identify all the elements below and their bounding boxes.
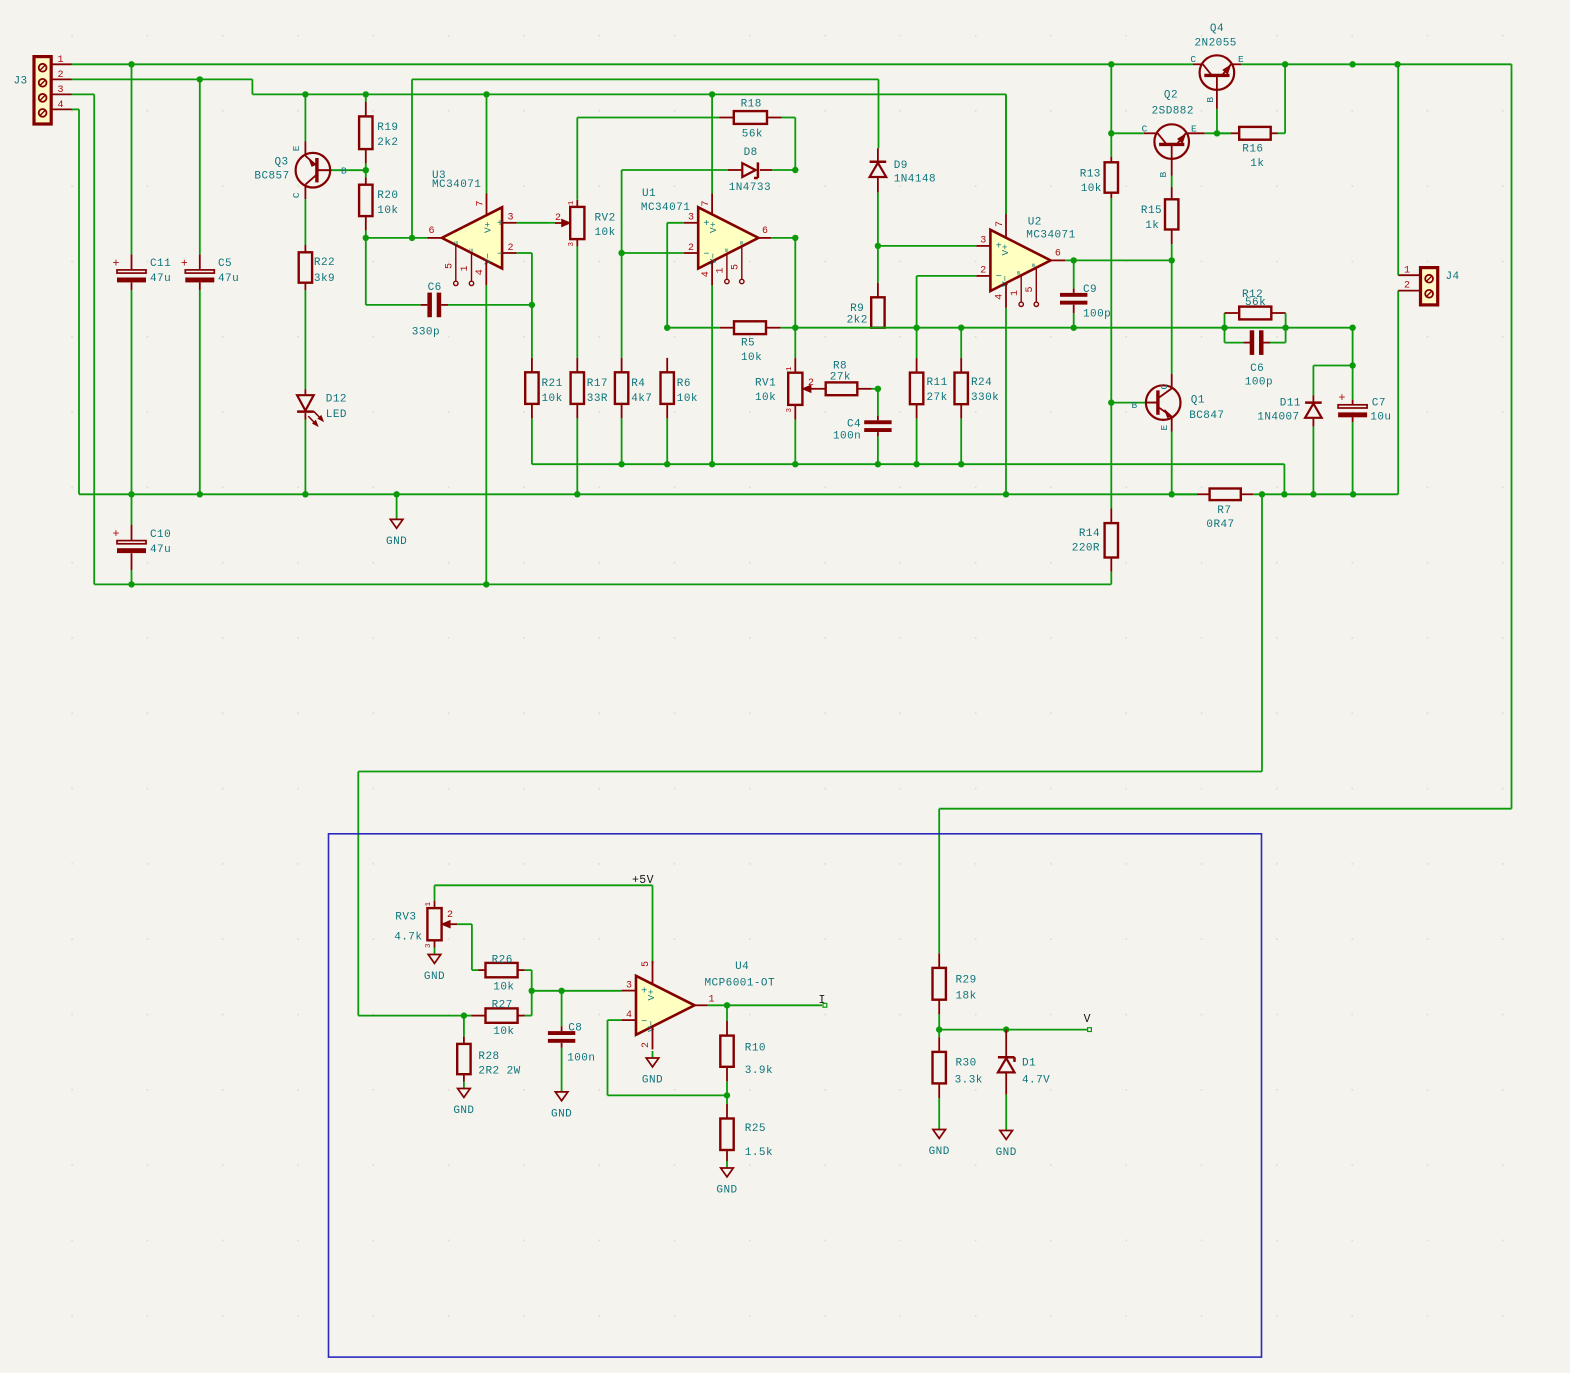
svg-text:MC34071: MC34071	[641, 202, 690, 214]
op-amp U1	[641, 188, 759, 268]
capacitor C10	[113, 528, 172, 556]
wire Q4 base	[1216, 90, 1218, 133]
junction R8 C4 R9col	[875, 386, 881, 392]
resistor R11	[910, 328, 948, 465]
svg-text:R15: R15	[1141, 205, 1162, 217]
junction Q3 base R19 R20	[363, 167, 369, 173]
pin 2 U1	[622, 243, 699, 254]
svg-text:RV2: RV2	[595, 212, 616, 224]
wire R9 bottom	[877, 327, 879, 329]
pin 6 U2	[1052, 248, 1073, 260]
svg-text:3: 3	[688, 213, 694, 224]
pin 5 U2 NC	[1025, 268, 1039, 307]
junction R10 R25 row	[724, 1092, 730, 1098]
svg-text:1k: 1k	[1250, 158, 1264, 170]
wire R21 column	[531, 305, 533, 372]
capacitor C5	[181, 257, 239, 285]
junction sense R24	[958, 461, 964, 467]
capacitor C11	[113, 257, 172, 285]
svg-text:GND: GND	[453, 1105, 474, 1117]
wire U1 out to RV1	[794, 238, 796, 373]
pin 1 U2 NC	[1010, 275, 1024, 306]
junction D11 C7 column	[1349, 362, 1355, 368]
svg-text:B: B	[341, 166, 347, 177]
svg-text:GND: GND	[996, 1147, 1017, 1159]
net label V	[1084, 1013, 1092, 1032]
ground symbol GND C8	[551, 1085, 572, 1121]
svg-text:56k: 56k	[1245, 297, 1266, 309]
svg-text:10k: 10k	[1081, 183, 1102, 195]
junction R27 R28	[461, 1012, 467, 1018]
svg-text:R13: R13	[1080, 169, 1101, 181]
svg-text:V: V	[1084, 1013, 1091, 1026]
junction GND C7	[1350, 491, 1356, 497]
svg-text:1k: 1k	[1145, 220, 1159, 232]
wire Q4 emitter stub	[1232, 63, 1241, 65]
wire Q2 collector	[1111, 132, 1156, 134]
op-amp U4	[636, 961, 775, 1035]
svg-text:R28: R28	[478, 1051, 499, 1063]
svg-text:V+: V+	[483, 221, 494, 233]
resistor R20	[359, 170, 398, 238]
resistor R25	[720, 1095, 773, 1161]
svg-text:R7: R7	[1217, 505, 1231, 517]
junction pin2 C5	[197, 76, 203, 82]
svg-text:V−: V−	[483, 253, 494, 265]
svg-text:2: 2	[555, 213, 561, 224]
diode D9	[870, 148, 936, 192]
wire net GND main row	[79, 291, 1398, 495]
svg-text:10k: 10k	[542, 393, 563, 405]
pin B label Q1	[1132, 400, 1138, 411]
junction +BATT C7 column	[1349, 61, 1355, 67]
svg-text:R21: R21	[542, 378, 563, 390]
svg-text:R10: R10	[745, 1043, 766, 1055]
svg-text:10k: 10k	[493, 982, 514, 994]
svg-text:3: 3	[568, 242, 576, 247]
svg-text:2k2: 2k2	[847, 314, 868, 326]
pin 1 U4	[695, 995, 823, 1006]
svg-text:C: C	[291, 192, 302, 198]
svg-text:I: I	[819, 994, 826, 1007]
svg-text:V−: V−	[646, 1020, 657, 1032]
svg-text:5: 5	[445, 263, 456, 269]
junction mid R11	[913, 325, 919, 331]
net label I	[819, 994, 827, 1007]
diode D11	[1257, 398, 1321, 495]
svg-text:0R47: 0R47	[1206, 519, 1234, 531]
junction V D1	[1003, 1026, 1009, 1032]
resistor R30	[933, 1030, 983, 1123]
junction sense U1 pin4	[709, 461, 715, 467]
wire R18 row	[577, 118, 795, 171]
svg-text:1: 1	[716, 267, 727, 273]
junction GND R7 right	[1259, 491, 1265, 497]
svg-text:RV1: RV1	[755, 377, 776, 389]
transistor Q1	[1146, 385, 1225, 422]
svg-text:3.3k: 3.3k	[955, 1075, 983, 1087]
resistor R9	[847, 297, 885, 327]
svg-text:2: 2	[688, 243, 694, 254]
svg-text:R14: R14	[1079, 528, 1100, 540]
pin 6 U1	[758, 226, 795, 238]
pin 4 label J3	[57, 100, 63, 111]
capacitor C9	[1060, 260, 1111, 327]
wire net FB2 y79 line to D9	[412, 79, 879, 148]
svg-text:1: 1	[460, 265, 471, 271]
svg-text:≡: ≡	[469, 248, 477, 252]
svg-text:100n: 100n	[833, 431, 861, 443]
resistor R15	[1141, 199, 1179, 260]
svg-text:R11: R11	[927, 377, 948, 389]
svg-text:RV3: RV3	[395, 912, 416, 924]
junction +BATT J4 pin1 column	[1394, 61, 1400, 67]
pin 7 U1	[701, 94, 712, 215]
junction U3 out fb column	[409, 235, 415, 241]
svg-text:J4: J4	[1446, 271, 1460, 283]
svg-text:1: 1	[425, 901, 433, 906]
wire Q1 collector	[1171, 260, 1173, 387]
svg-text:3.9k: 3.9k	[745, 1065, 773, 1077]
junction GND U2 pin4	[1003, 491, 1009, 497]
net label +5V	[632, 874, 654, 887]
wire RV2 pin3 to R17	[576, 239, 578, 372]
wire Q1 base row	[1111, 402, 1157, 404]
junction +BATT C11	[128, 61, 134, 67]
svg-text:+: +	[113, 528, 120, 541]
pin 2 U2	[917, 266, 991, 328]
svg-text:D8: D8	[744, 147, 758, 159]
resistor R26	[486, 955, 532, 994]
resistor R19	[359, 94, 398, 170]
pin 4 U1	[701, 260, 712, 464]
svg-text:47u: 47u	[218, 273, 239, 285]
wire RV2 pin1 to R18 row	[576, 118, 578, 207]
resistor R18	[734, 99, 767, 141]
junction C8 top	[558, 988, 564, 994]
junction U1 out column	[792, 235, 798, 241]
wire D11 branch	[1313, 366, 1352, 403]
wire R9 column	[877, 192, 879, 297]
junction +V Q3 emitter	[302, 91, 308, 97]
wire RV3 pin3 to GND	[434, 940, 436, 947]
svg-text:D1: D1	[1022, 1058, 1036, 1070]
resistor R5	[734, 321, 766, 364]
pin B label Q3	[341, 166, 347, 177]
svg-text:MC34071: MC34071	[1026, 229, 1075, 241]
svg-text:R16: R16	[1242, 143, 1263, 155]
svg-text:Q1: Q1	[1191, 395, 1205, 407]
junction +V R19	[363, 91, 369, 97]
ground symbol GND D1	[996, 1124, 1017, 1160]
svg-text:+: +	[1339, 392, 1346, 405]
svg-text:3: 3	[507, 213, 513, 224]
svg-text:7: 7	[995, 221, 1006, 227]
junction fb C6 U3pin2	[529, 302, 535, 308]
svg-text:C6: C6	[1250, 363, 1264, 375]
junction GND D11	[1310, 491, 1316, 497]
svg-text:5: 5	[1025, 286, 1036, 292]
svg-text:R18: R18	[741, 99, 762, 111]
svg-text:+: +	[181, 257, 188, 270]
svg-text:1: 1	[786, 366, 794, 371]
svg-text:4.7k: 4.7k	[394, 932, 422, 944]
svg-text:E: E	[291, 145, 302, 151]
pin C label Q3	[291, 192, 302, 198]
svg-text:B: B	[1132, 400, 1138, 411]
resistor R4	[615, 358, 652, 464]
wire C7 column	[1352, 328, 1354, 495]
potentiometer RV3	[394, 901, 457, 948]
wire Q1 emitter	[1171, 418, 1173, 495]
capacitor C7	[1338, 392, 1391, 424]
pin 7 U3	[476, 94, 487, 215]
potentiometer RV2	[549, 200, 616, 246]
svg-text:3k9: 3k9	[314, 273, 335, 285]
junction Q2 emitter Q4 base	[1214, 130, 1220, 136]
svg-text:6: 6	[1055, 248, 1061, 259]
svg-text:E: E	[1159, 425, 1170, 431]
junction GND Q1 emitter	[1169, 491, 1175, 497]
svg-text:+: +	[113, 257, 120, 270]
junction R26 R27 pin3 row	[529, 988, 535, 994]
svg-text:R26: R26	[492, 955, 513, 967]
svg-text:C6: C6	[428, 282, 442, 294]
svg-text:3: 3	[786, 408, 794, 413]
wire J4 pin2 stub	[1398, 290, 1420, 292]
svg-text:R5: R5	[741, 337, 755, 349]
svg-text:B: B	[1205, 97, 1216, 103]
wire R5 row	[667, 327, 795, 329]
transistor Q4	[1195, 23, 1237, 90]
svg-text:1: 1	[1010, 290, 1021, 296]
svg-text:B: B	[1158, 172, 1169, 178]
junction Q2 collector R13	[1108, 130, 1114, 136]
svg-text:47u: 47u	[150, 273, 171, 285]
pin E label Q1	[1159, 425, 1170, 431]
wire net GND pin4 feed	[72, 109, 79, 494]
ground symbol GND R28	[453, 1082, 474, 1118]
op-amp U2	[990, 216, 1075, 291]
svg-text:6: 6	[428, 226, 434, 237]
svg-text:2R2 2W: 2R2 2W	[478, 1066, 520, 1078]
svg-text:1.5k: 1.5k	[745, 1147, 773, 1159]
junction R5 right RV1	[792, 325, 798, 331]
svg-text:10k: 10k	[595, 227, 616, 239]
wire RV3 wiper to R26	[457, 924, 485, 970]
svg-text:1: 1	[568, 200, 576, 205]
wire C5 column	[199, 79, 201, 494]
pin 4 U4	[608, 1010, 728, 1096]
svg-text:5: 5	[641, 961, 652, 967]
junction mid C9	[1071, 325, 1077, 331]
svg-text:220R: 220R	[1072, 543, 1100, 555]
svg-text:Q3: Q3	[275, 157, 289, 169]
svg-text:BC857: BC857	[254, 171, 289, 183]
sheet box lower	[329, 834, 1262, 1357]
svg-text:U1: U1	[642, 188, 656, 200]
wire net pin3 to V- row	[72, 94, 1111, 584]
junction GND D12	[302, 491, 308, 497]
wire C11 column	[131, 64, 133, 494]
wire D12 to GND row	[304, 413, 306, 494]
wire V row	[939, 1029, 1088, 1031]
svg-text:3: 3	[626, 980, 632, 991]
svg-text:R29: R29	[956, 975, 977, 987]
junction GND R17	[574, 491, 580, 497]
junction GND C11-C10	[128, 491, 134, 497]
svg-text:R25: R25	[745, 1123, 766, 1135]
svg-text:R19: R19	[377, 122, 398, 134]
svg-text:18k: 18k	[956, 991, 977, 1003]
junction U1 pin2 column	[618, 250, 624, 256]
junction GND symbol	[393, 491, 399, 497]
pin 5 U1 NC	[731, 245, 745, 283]
svg-text:10k: 10k	[741, 352, 762, 364]
wire J4 pin1	[1398, 64, 1420, 275]
wire net +BATT top rail	[72, 64, 1512, 953]
svg-text:4.7V: 4.7V	[1022, 1075, 1050, 1087]
ground symbol GND R30	[929, 1123, 950, 1159]
svg-text:R17: R17	[587, 378, 608, 390]
pin 3 U4	[622, 980, 636, 991]
svg-text:7: 7	[476, 200, 487, 206]
junction U3 out R20	[363, 235, 369, 241]
svg-text:GND: GND	[386, 536, 407, 548]
wire R27 row	[464, 1015, 486, 1017]
pin 4 U2	[995, 283, 1006, 495]
svg-text:R22: R22	[314, 257, 335, 269]
pin 1 U1 NC	[716, 253, 730, 284]
junction mid R24	[958, 325, 964, 331]
wire net VIN- pin2 to +rail jog	[72, 79, 253, 94]
svg-text:GND: GND	[929, 1146, 950, 1158]
pin 3 U3	[502, 213, 548, 224]
svg-text:2: 2	[447, 910, 453, 921]
capacitor C6 330p	[412, 282, 442, 339]
pin E label Q3	[291, 145, 302, 151]
svg-text:≡: ≡	[724, 248, 732, 252]
connector J4	[1421, 268, 1460, 305]
ground symbol GND main	[386, 494, 407, 548]
pin E label Q4	[1238, 54, 1244, 65]
svg-text:≡: ≡	[739, 241, 747, 245]
svg-text:LED: LED	[326, 409, 347, 421]
pin 5 U3 NC	[445, 245, 458, 285]
svg-text:2: 2	[980, 266, 986, 277]
svg-text:C5: C5	[218, 258, 232, 270]
svg-text:100p: 100p	[1083, 309, 1111, 321]
junction V- C10	[128, 581, 134, 587]
wire Q3 emitter	[304, 94, 306, 154]
junction +BATT R13	[1108, 61, 1114, 67]
wire Q3 collector to R22	[304, 186, 306, 253]
pin 1 U3 NC	[460, 253, 473, 286]
resistor R24	[955, 328, 1000, 465]
wire current-sense feed to lower box	[358, 494, 1262, 1015]
resistor R29	[933, 953, 977, 1029]
svg-text:47u: 47u	[150, 544, 171, 556]
svg-text:2SD882: 2SD882	[1152, 105, 1194, 117]
wire U2 out row	[1074, 259, 1172, 261]
svg-text:BC847: BC847	[1189, 410, 1224, 422]
wire mid row	[667, 327, 1352, 329]
svg-text:100n: 100n	[567, 1053, 595, 1065]
svg-text:J3: J3	[14, 76, 28, 88]
pin 1 label J3	[57, 55, 63, 66]
svg-text:MCP6001-OT: MCP6001-OT	[705, 977, 776, 989]
svg-text:V+: V+	[708, 221, 719, 233]
wire C4 column	[877, 389, 879, 464]
svg-text:D9: D9	[894, 160, 908, 172]
svg-text:4: 4	[626, 1010, 632, 1021]
ground symbol GND R25	[716, 1161, 737, 1197]
wire Q2 base to R15	[1171, 159, 1173, 199]
resistor R16	[1217, 64, 1285, 170]
svg-text:≡: ≡	[454, 241, 462, 245]
svg-text:C9: C9	[1083, 284, 1097, 296]
LED D12	[297, 389, 347, 426]
svg-text:330p: 330p	[412, 327, 440, 339]
wire RV3 pin1	[434, 885, 436, 908]
svg-text:4: 4	[475, 269, 486, 275]
pin 2 label J4	[1404, 281, 1410, 292]
svg-text:4k7: 4k7	[631, 393, 652, 405]
svg-text:7: 7	[701, 200, 712, 206]
wire +5V rail	[435, 885, 653, 963]
junction +BATT R16 branch	[1282, 61, 1288, 67]
wire R13 column	[1110, 64, 1112, 162]
svg-text:V+: V+	[646, 989, 657, 1001]
capacitor C6 100p	[1225, 328, 1286, 389]
svg-text:27k: 27k	[927, 392, 948, 404]
svg-text:10k: 10k	[677, 393, 698, 405]
resistor R7	[1172, 489, 1254, 532]
resistor R8	[818, 360, 878, 395]
svg-text:R8: R8	[833, 360, 847, 372]
resistor R13	[1080, 162, 1118, 402]
svg-text:3: 3	[425, 943, 433, 948]
junction sense R11	[913, 461, 919, 467]
junction +V U1 pin7	[709, 91, 715, 97]
svg-text:D11: D11	[1280, 398, 1301, 410]
pin C label Q4	[1190, 54, 1196, 65]
wire net +V supply rail	[252, 94, 1006, 214]
svg-text:27k: 27k	[830, 372, 851, 384]
wire RV1 pin3	[794, 405, 796, 464]
svg-text:MC34071: MC34071	[432, 179, 481, 191]
svg-text:C: C	[1159, 384, 1170, 390]
resistor R12	[1225, 289, 1286, 328]
svg-text:R27: R27	[492, 1000, 513, 1012]
svg-text:2: 2	[808, 378, 814, 389]
svg-text:1N4007: 1N4007	[1257, 412, 1299, 424]
svg-text:Q2: Q2	[1164, 90, 1178, 102]
junction sense R6	[664, 461, 670, 467]
svg-text:R30: R30	[956, 1058, 977, 1070]
wire Q2 emitter	[1187, 132, 1231, 134]
svg-text:10k: 10k	[377, 205, 398, 217]
junction U2 out R15	[1169, 257, 1175, 263]
pin B label Q2	[1158, 172, 1169, 178]
wire C10 column	[131, 494, 133, 584]
junction R5 left	[664, 325, 670, 331]
svg-text:C8: C8	[568, 1023, 582, 1035]
svg-text:330k: 330k	[971, 392, 999, 404]
svg-text:Q4: Q4	[1210, 23, 1224, 35]
pin 5 U4	[641, 961, 652, 984]
svg-text:3: 3	[980, 236, 986, 247]
